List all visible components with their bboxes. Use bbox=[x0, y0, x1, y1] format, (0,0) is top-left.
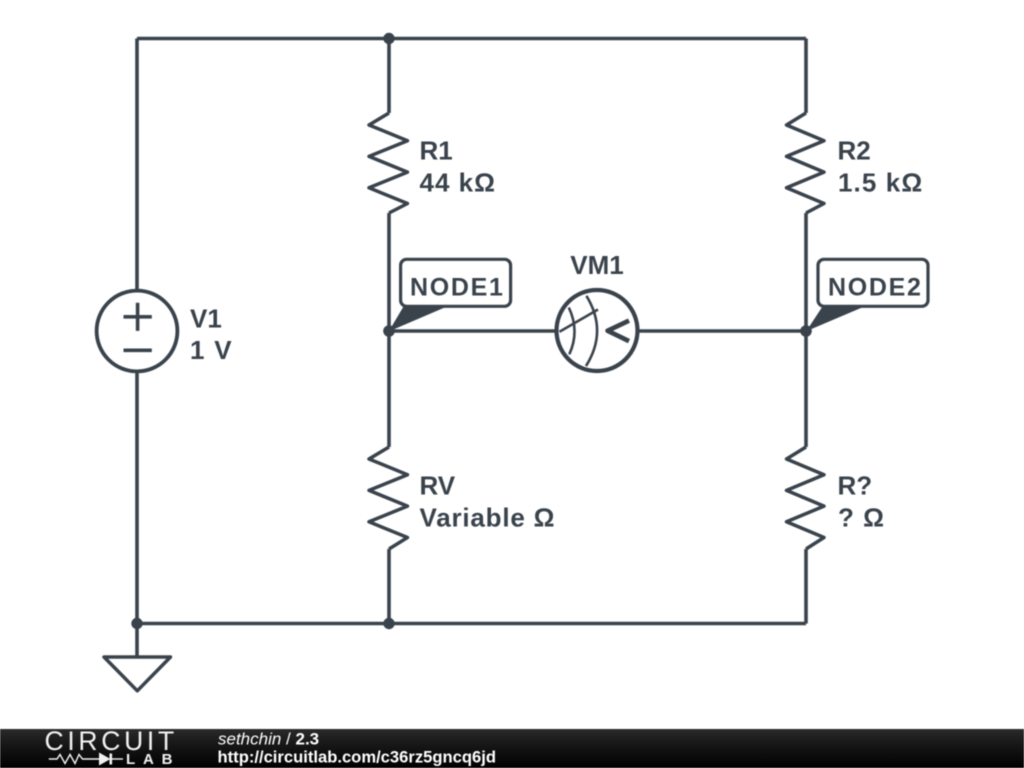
junction NODE1 bbox=[383, 325, 395, 337]
resistor R? bbox=[787, 447, 885, 549]
wire bottom horizontal bbox=[137, 622, 806, 626]
ground bbox=[104, 657, 171, 691]
voltmeter VM1 bbox=[557, 250, 638, 371]
wire ground lead bbox=[135, 624, 139, 658]
node NODE2 bbox=[806, 259, 928, 331]
junction bottom RV bbox=[383, 618, 394, 629]
svg-text:1 V: 1 V bbox=[190, 335, 233, 365]
wire R2 bottom lead to NODE2 bbox=[804, 213, 808, 331]
logo wire resistor diode bbox=[49, 754, 123, 765]
svg-text:Variable Ω: Variable Ω bbox=[420, 503, 556, 533]
svg-text:R1: R1 bbox=[420, 136, 453, 166]
wire R? top lead bbox=[804, 331, 808, 447]
resistor R2 bbox=[787, 113, 924, 213]
wire NODE1 to voltmeter bbox=[389, 329, 556, 333]
wire left vertical upper bbox=[135, 39, 139, 291]
svg-text:LAB: LAB bbox=[126, 751, 180, 768]
wire voltmeter to NODE2 bbox=[638, 329, 806, 333]
wire RV top lead bbox=[387, 331, 391, 447]
wire left vertical lower bbox=[135, 372, 139, 624]
resistor RV bbox=[369, 447, 555, 549]
wire R? bottom lead bbox=[804, 549, 808, 624]
node NODE1 bbox=[389, 259, 511, 331]
svg-text:V1: V1 bbox=[190, 304, 222, 334]
svg-text:RV: RV bbox=[420, 471, 456, 501]
svg-text:NODE2: NODE2 bbox=[828, 274, 923, 302]
junction NODE2 bbox=[800, 325, 812, 337]
junction bottom left bbox=[131, 618, 142, 629]
svg-text:sethchin / 2.3: sethchin / 2.3 bbox=[218, 730, 319, 749]
svg-text:? Ω: ? Ω bbox=[838, 503, 885, 533]
svg-text:1.5 kΩ: 1.5 kΩ bbox=[838, 168, 923, 198]
svg-text:44 kΩ: 44 kΩ bbox=[420, 168, 496, 198]
svg-text:R?: R? bbox=[838, 471, 873, 501]
voltage source V1 bbox=[97, 291, 233, 372]
wire R1 top lead bbox=[387, 39, 391, 114]
junction top bbox=[383, 33, 394, 44]
wire top horizontal bbox=[137, 37, 806, 41]
svg-text:R2: R2 bbox=[838, 136, 871, 166]
wire RV bottom lead bbox=[387, 549, 391, 624]
wire R2 top lead bbox=[804, 39, 808, 114]
svg-text:VM1: VM1 bbox=[570, 250, 623, 280]
footer bar bbox=[0, 729, 1024, 768]
svg-text:http://circuitlab.com/c36rz5gn: http://circuitlab.com/c36rz5gncq6jd bbox=[218, 748, 496, 767]
wire R1 bottom lead to NODE1 bbox=[387, 213, 391, 331]
svg-text:NODE1: NODE1 bbox=[410, 274, 505, 302]
resistor R1 bbox=[369, 113, 496, 213]
